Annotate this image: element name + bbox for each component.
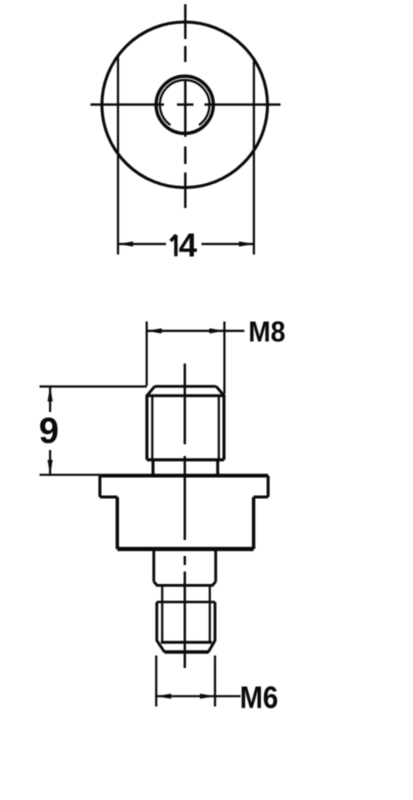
svg-text:M6: M6 (240, 679, 279, 715)
svg-text:4: 4 (179, 226, 198, 263)
svg-text:9: 9 (39, 410, 59, 451)
svg-text:M8: M8 (248, 317, 285, 349)
